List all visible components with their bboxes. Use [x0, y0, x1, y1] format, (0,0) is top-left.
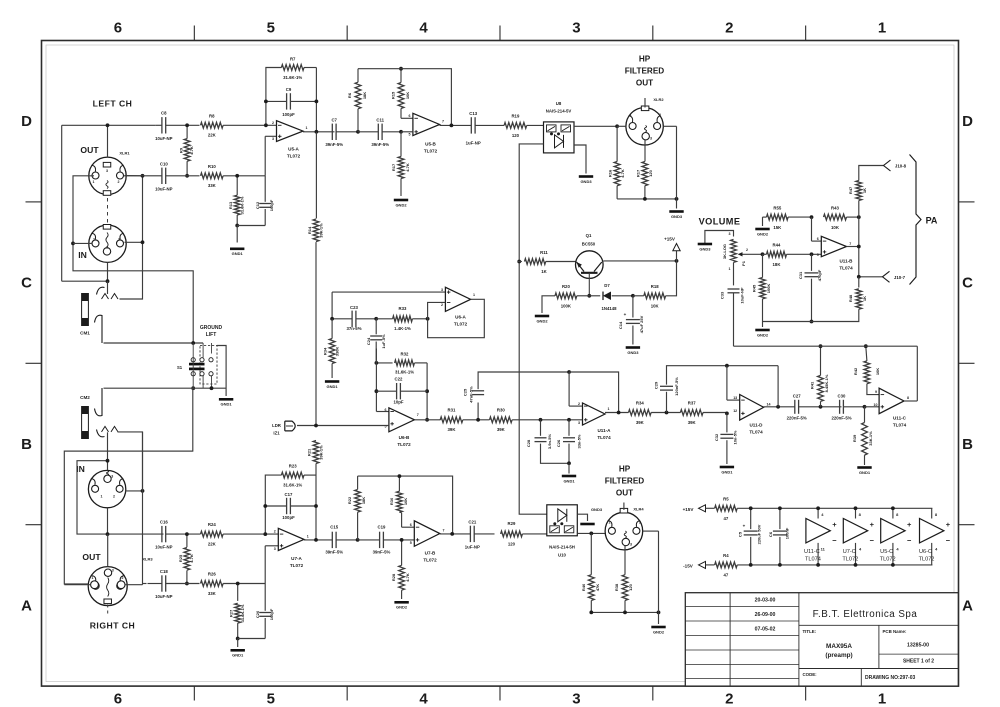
svg-text:100K: 100K: [766, 284, 771, 294]
svg-text:NAIS-214-5H: NAIS-214-5H: [549, 544, 575, 549]
svg-text:4.7K: 4.7K: [620, 169, 625, 178]
svg-text:1uF-5%: 1uF-5%: [381, 334, 386, 349]
svg-text:TL072: TL072: [842, 557, 858, 563]
capacitor C33: [728, 288, 740, 290]
svg-text:U11-A: U11-A: [597, 428, 611, 433]
wire Q1 base node: [587, 294, 591, 298]
svg-text:XLR4: XLR4: [633, 507, 644, 512]
resistor R23: [265, 475, 281, 534]
svg-text:OUT: OUT: [80, 145, 99, 155]
resistor R10: [201, 173, 224, 179]
XLR connector XLR4: [605, 512, 643, 550]
svg-text:8: 8: [907, 396, 909, 400]
ground GND2 below R28: [394, 601, 408, 604]
svg-text:GND1: GND1: [327, 384, 339, 389]
svg-text:47K: 47K: [595, 584, 600, 591]
svg-text:SHEET 1 of 2: SHEET 1 of 2: [903, 659, 934, 665]
capacitor C5: [750, 508, 752, 529]
svg-text:1: 1: [101, 495, 103, 499]
XLR connector XLR1 (left ch OUT): [89, 157, 126, 194]
svg-text:+: +: [832, 520, 837, 529]
wire right-ch ground line: [64, 450, 193, 452]
svg-text:R34: R34: [636, 401, 644, 406]
wire U5-B output: [440, 124, 472, 126]
svg-text:220nF-5%: 220nF-5%: [831, 416, 851, 421]
svg-text:GND1: GND1: [232, 653, 244, 658]
wire LDR to U6-B plus input: [297, 425, 389, 427]
svg-text:C28: C28: [526, 439, 531, 447]
svg-text:C19: C19: [378, 525, 386, 530]
svg-text:B: B: [962, 436, 973, 453]
jack contact CM1: [95, 315, 103, 343]
svg-text:C25: C25: [463, 388, 468, 396]
svg-text:D: D: [962, 113, 973, 130]
svg-text:RIGHT CH: RIGHT CH: [90, 621, 136, 631]
svg-text:FILTERED: FILTERED: [625, 67, 665, 76]
svg-text:5: 5: [267, 20, 275, 37]
svg-text:18K: 18K: [361, 497, 366, 504]
svg-text:C7: C7: [331, 118, 337, 123]
svg-text:1: 1: [630, 113, 632, 117]
svg-text:TL072: TL072: [423, 557, 437, 562]
svg-text:39K: 39K: [448, 427, 457, 432]
wire XLR2 top lead: [644, 98, 646, 108]
svg-text:R17: R17: [635, 169, 640, 177]
wire U11-B minus input: [811, 217, 813, 241]
svg-text:MAX95A: MAX95A: [826, 643, 852, 650]
svg-text:GND3: GND3: [580, 179, 592, 184]
svg-text:C23: C23: [350, 305, 358, 310]
svg-text:1N4148: 1N4148: [601, 306, 617, 311]
wire XLR pin1 loop to S1: [73, 176, 193, 344]
ground GND3 below C14: [626, 346, 640, 349]
ground GND2 volume bottom: [755, 329, 769, 332]
svg-text:5: 5: [817, 253, 819, 257]
svg-text:10pF: 10pF: [393, 400, 403, 405]
svg-text:4.7K: 4.7K: [405, 573, 410, 582]
svg-text:Q1: Q1: [586, 233, 592, 238]
op-amp U6-A: [445, 287, 470, 311]
wire volume top to GND3: [705, 231, 734, 244]
svg-text:39K: 39K: [636, 420, 645, 425]
svg-text:C9: C9: [286, 87, 292, 92]
ground GND2 below XLR4: [651, 626, 665, 629]
wire XLR4 top lead: [623, 503, 625, 510]
wire U7-B feedback: [358, 476, 453, 534]
capacitor C32: [720, 433, 733, 435]
svg-text:TL074: TL074: [893, 423, 907, 428]
svg-text:C6: C6: [768, 531, 773, 537]
svg-text:C27: C27: [793, 393, 801, 398]
wire CM1 to S1: [104, 342, 204, 344]
svg-text:OUT: OUT: [636, 79, 653, 88]
resistor R29: [501, 531, 523, 537]
svg-text:1K: 1K: [862, 188, 867, 193]
svg-text:4.7K: 4.7K: [405, 163, 410, 172]
svg-text:HP: HP: [619, 465, 631, 474]
svg-text:R19: R19: [511, 113, 519, 118]
ground GND3 volume: [698, 243, 712, 246]
svg-text:10uF-NP: 10uF-NP: [155, 594, 173, 599]
svg-text:-15V: -15V: [683, 564, 694, 569]
relay U8 (NAIS-214-5V): [544, 122, 575, 153]
svg-text:R41: R41: [810, 381, 815, 389]
svg-text:R28: R28: [391, 573, 396, 581]
svg-text:C15: C15: [330, 525, 338, 530]
svg-text:C8: C8: [161, 111, 167, 116]
op-amp U7-B: [414, 521, 440, 547]
svg-text:BC550: BC550: [582, 242, 596, 247]
svg-text:−: −: [832, 536, 837, 545]
svg-text:4: 4: [419, 691, 428, 707]
capacitor C14: [632, 296, 634, 318]
svg-text:R11: R11: [540, 250, 548, 255]
svg-text:C31: C31: [798, 271, 803, 279]
resistor R22: [357, 476, 359, 489]
svg-text:100nF: 100nF: [785, 527, 790, 539]
svg-text:−: −: [870, 536, 875, 545]
wire right-ch ground loop: [64, 388, 193, 584]
svg-text:R32: R32: [401, 352, 409, 357]
svg-text:U6-B: U6-B: [399, 435, 410, 440]
svg-text:U10: U10: [558, 553, 566, 558]
wire relay U10 to GND3: [577, 514, 587, 521]
wire U11-D output + feedback: [764, 406, 795, 408]
svg-text:120: 120: [512, 133, 520, 138]
op-amp U11-A: [583, 403, 606, 425]
svg-text:5: 5: [267, 691, 275, 707]
svg-text:−: −: [907, 536, 912, 545]
svg-text:S1: S1: [177, 365, 183, 370]
svg-text:GND2: GND2: [757, 231, 769, 236]
resistor R33: [393, 316, 413, 322]
svg-text:U7-C: U7-C: [843, 549, 856, 555]
svg-text:33K: 33K: [208, 591, 217, 596]
resistor R28: [401, 540, 403, 566]
capacitor C13: [470, 117, 472, 133]
svg-text:47: 47: [724, 572, 729, 577]
wire U6-B feedback rails: [375, 349, 377, 412]
svg-text:C20: C20: [255, 610, 260, 618]
svg-text:3.9n-5%: 3.9n-5%: [547, 434, 552, 450]
svg-text:3: 3: [106, 169, 108, 173]
svg-text:TL074: TL074: [597, 435, 611, 440]
svg-text:D7: D7: [604, 283, 610, 288]
switch S1 (ground lift): [200, 346, 217, 385]
LDR IZ1 symbol: [285, 421, 295, 431]
capacitor C21: [469, 526, 471, 542]
svg-text:R34: R34: [323, 347, 328, 355]
resistor R4: [706, 564, 715, 566]
svg-text:14: 14: [767, 403, 771, 407]
resistor R13: [236, 176, 238, 195]
resistor R32: [376, 362, 392, 364]
svg-text:TL072: TL072: [880, 557, 896, 563]
svg-text:FILTERED: FILTERED: [605, 477, 645, 486]
svg-text:3: 3: [650, 137, 652, 141]
svg-text:2: 2: [639, 521, 641, 525]
svg-text:100pF: 100pF: [269, 608, 274, 620]
svg-text:U6-A: U6-A: [455, 314, 466, 319]
resistor R24: [201, 531, 224, 537]
capacitor C31: [811, 254, 813, 271]
svg-text:3: 3: [272, 137, 274, 141]
svg-text:TITLE:: TITLE:: [803, 629, 817, 634]
XLR connector XLR2: [626, 108, 663, 145]
resistor R42: [866, 346, 867, 361]
svg-text:TL074: TL074: [839, 266, 853, 271]
resistor R45: [762, 254, 764, 277]
svg-text:120nF-5%: 120nF-5%: [674, 377, 679, 396]
jack contact CM2: [95, 388, 103, 416]
svg-text:R45: R45: [752, 284, 757, 292]
svg-text:R9: R9: [179, 147, 184, 153]
resistor R16: [616, 126, 618, 161]
connector J10-7: [883, 271, 890, 282]
svg-text:470pF: 470pF: [817, 269, 822, 281]
svg-text:1: 1: [93, 238, 95, 242]
svg-text:1: 1: [306, 126, 308, 130]
bracket PA: [910, 155, 922, 285]
svg-text:R21: R21: [307, 448, 312, 456]
svg-text:R42: R42: [853, 367, 858, 375]
svg-text:100pF: 100pF: [282, 515, 295, 520]
wire R30 to U7-B minus: [401, 513, 403, 528]
XLR connector XLR3 (right ch OUT): [88, 567, 127, 606]
resistor R8: [201, 122, 224, 128]
svg-text:R5: R5: [723, 497, 729, 502]
svg-text:U11-B: U11-B: [839, 259, 853, 264]
svg-text:R8: R8: [209, 113, 215, 118]
svg-text:4.7K: 4.7K: [189, 554, 194, 563]
op-amp U7-A: [278, 528, 304, 550]
svg-text:6: 6: [817, 237, 819, 241]
svg-text:20-03-00: 20-03-00: [755, 597, 776, 603]
svg-text:1: 1: [609, 521, 611, 525]
svg-text:10K: 10K: [405, 92, 410, 99]
svg-text:CM1: CM1: [80, 330, 90, 335]
svg-text:10uF-NP: 10uF-NP: [155, 545, 173, 550]
resistor R26: [201, 581, 224, 587]
svg-text:GND3: GND3: [591, 507, 603, 512]
svg-text:3: 3: [106, 246, 108, 250]
resistor R6: [357, 109, 359, 132]
wire C15 to C19: [358, 539, 380, 541]
svg-text:+: +: [907, 520, 912, 529]
svg-text:U5-C: U5-C: [880, 549, 893, 555]
resistor R34: [331, 319, 333, 339]
ground GND1 below C26: [562, 475, 576, 478]
svg-text:6: 6: [385, 408, 387, 412]
ground GND1 below R39: [857, 466, 871, 469]
wire U7-A output: [304, 539, 332, 541]
op-amp power symbol U6-C: [920, 519, 944, 543]
title block: [685, 593, 958, 686]
svg-text:J10-8: J10-8: [895, 164, 907, 169]
svg-text:GND3: GND3: [699, 246, 711, 251]
resistor R17: [400, 132, 402, 157]
svg-text:39K-1%: 39K-1%: [319, 445, 324, 460]
svg-text:C29: C29: [654, 381, 659, 389]
resistor R47: [858, 178, 860, 181]
svg-text:TL072: TL072: [454, 321, 468, 326]
resistor R31: [440, 417, 463, 423]
svg-text:GND1: GND1: [721, 469, 733, 474]
svg-text:OUT: OUT: [616, 489, 633, 498]
ground GND3 relay U10: [580, 523, 594, 526]
svg-text:GND1: GND1: [232, 251, 244, 256]
svg-text:CM2: CM2: [80, 395, 90, 400]
svg-text:31.6K-1%: 31.6K-1%: [240, 604, 245, 622]
wire relay coil drive vertical: [519, 144, 547, 514]
svg-text:220nF-5%: 220nF-5%: [787, 416, 807, 421]
capacitor C19: [379, 532, 381, 548]
svg-text:R27: R27: [229, 609, 234, 617]
ground GND1 below R13: [230, 248, 244, 251]
op-amp power symbol U5-C: [881, 519, 905, 543]
svg-text:TL072: TL072: [290, 563, 304, 568]
resistor R43: [824, 214, 847, 220]
svg-text:10K: 10K: [875, 368, 880, 375]
svg-text:3: 3: [274, 547, 276, 551]
switch contacts (left ch): [102, 294, 119, 300]
svg-text:XLR1: XLR1: [119, 151, 130, 156]
ground GND2 below R20: [535, 315, 549, 318]
op-amp U5-B: [413, 113, 440, 135]
svg-text:−: −: [946, 536, 951, 545]
wire to J10-7: [859, 276, 883, 278]
svg-text:R38: R38: [614, 583, 619, 591]
svg-text:R4: R4: [723, 553, 729, 558]
svg-text:2: 2: [118, 180, 120, 184]
resistor R38: [622, 575, 628, 601]
XLR connector (right ch IN): [88, 470, 125, 507]
svg-text:LEFT CH: LEFT CH: [93, 99, 133, 109]
svg-text:4.7K: 4.7K: [189, 146, 194, 155]
capacitor C23: [332, 318, 352, 320]
resistor R44: [767, 251, 787, 257]
svg-text:47nF-5%: 47nF-5%: [468, 386, 473, 403]
potentiometer P1 (3K-LOG): [731, 239, 737, 262]
svg-text:13: 13: [733, 396, 737, 400]
svg-text:U11-C: U11-C: [804, 549, 820, 555]
svg-text:R44: R44: [773, 243, 781, 248]
svg-text:18K: 18K: [362, 92, 367, 99]
resistor R18: [633, 295, 644, 297]
svg-text:1: 1: [307, 535, 309, 539]
wire to R40: [590, 533, 592, 574]
capacitor C9: [266, 100, 287, 102]
svg-text:100pF: 100pF: [282, 112, 295, 117]
ground GND1 below R27: [231, 649, 245, 652]
wire long vertical lower: [315, 464, 317, 540]
svg-text:C11: C11: [376, 118, 384, 123]
wire right XLR pin2 vertical: [125, 490, 143, 492]
svg-text:GND1: GND1: [563, 478, 575, 483]
svg-text:+: +: [870, 520, 875, 529]
svg-text:GND3: GND3: [627, 350, 639, 355]
capacitor C12: [264, 176, 266, 202]
svg-text:2: 2: [725, 20, 733, 37]
svg-text:2: 2: [118, 238, 120, 242]
op-amp U11-D: [740, 395, 764, 421]
svg-text:C26: C26: [556, 439, 561, 447]
resistor R9: [186, 125, 188, 138]
svg-text:1: 1: [608, 407, 610, 411]
svg-text:1.4K-1%: 1.4K-1%: [394, 326, 411, 331]
svg-text:100pF: 100pF: [269, 199, 274, 211]
svg-text:+: +: [946, 520, 951, 529]
svg-text:GND2: GND2: [536, 318, 548, 323]
svg-text:IZ1: IZ1: [273, 431, 280, 436]
svg-text:B: B: [21, 436, 32, 453]
svg-text:2: 2: [113, 495, 115, 499]
switch contacts (right ch): [102, 426, 119, 432]
capacitor C7: [331, 124, 333, 140]
op-amp power symbol U11-C: [806, 519, 830, 543]
resistor R27: [237, 584, 239, 601]
svg-text:R30: R30: [389, 497, 394, 505]
svg-text:TL074: TL074: [805, 557, 821, 563]
svg-text:6: 6: [114, 691, 122, 707]
svg-text:C32: C32: [714, 433, 719, 441]
wire U5-A plus input: [264, 136, 266, 176]
svg-text:C: C: [21, 275, 32, 292]
svg-text:R37: R37: [688, 401, 696, 406]
svg-text:2: 2: [578, 402, 580, 406]
svg-text:F.B.T. Elettronica Spa: F.B.T. Elettronica Spa: [813, 609, 918, 620]
svg-text:DRAWING NO:297-03: DRAWING NO:297-03: [865, 675, 916, 681]
wire CM2 to S1: [191, 386, 195, 390]
svg-text:10n-5%: 10n-5%: [733, 430, 738, 444]
svg-text:1K: 1K: [862, 296, 867, 301]
svg-text:3K-LOG: 3K-LOG: [722, 244, 727, 259]
svg-text:5: 5: [410, 541, 412, 545]
svg-text:3: 3: [441, 288, 443, 292]
svg-text:13285-00: 13285-00: [907, 643, 929, 649]
svg-text:R43: R43: [831, 205, 839, 210]
svg-text:TL072: TL072: [424, 148, 438, 153]
svg-text:39nF-5%: 39nF-5%: [373, 549, 391, 554]
capacitor C28: [540, 420, 542, 436]
svg-text:10K: 10K: [651, 304, 660, 309]
svg-text:+15V: +15V: [664, 237, 676, 242]
svg-text:PA: PA: [926, 216, 938, 226]
resistor R39: [864, 407, 866, 423]
connector J10-8: [884, 160, 891, 171]
svg-text:2: 2: [274, 530, 276, 534]
svg-text:8.45K-1%: 8.45K-1%: [824, 374, 829, 392]
svg-text:33K: 33K: [208, 183, 217, 188]
capacitor C29: [666, 392, 668, 413]
svg-text:GND1: GND1: [221, 402, 233, 407]
svg-text:10uF-NP: 10uF-NP: [155, 186, 173, 191]
capacitor C17: [265, 505, 286, 507]
svg-text:XLR2: XLR2: [653, 97, 664, 102]
capacitor C11: [358, 131, 378, 133]
svg-text:GND2: GND2: [757, 332, 769, 337]
svg-text:+: +: [743, 524, 746, 529]
svg-text:CODE:: CODE:: [803, 672, 818, 677]
wire long vertical + resistor R14: [315, 132, 317, 219]
resistor R40: [588, 575, 594, 601]
svg-text:GND2: GND2: [395, 202, 407, 207]
svg-text:GND2: GND2: [653, 629, 665, 634]
resistor R19: [504, 123, 527, 129]
svg-text:C24: C24: [366, 337, 371, 345]
svg-text:3: 3: [729, 232, 731, 236]
ground GND1 below C32: [720, 466, 734, 469]
